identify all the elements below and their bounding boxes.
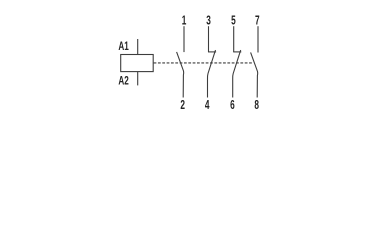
contact pole 4 (terminals 7-8)	[251, 26, 258, 97]
wire A2 lead	[137, 72, 139, 86]
svg-text:7: 7	[255, 12, 260, 27]
wire mechanical link (dashed)	[154, 62, 253, 64]
svg-text:4: 4	[205, 97, 210, 112]
wire A1 lead	[137, 39, 139, 55]
svg-text:6: 6	[230, 97, 235, 112]
contact pole 2 (terminals 3-4)	[207, 26, 216, 97]
svg-text:8: 8	[254, 97, 259, 112]
svg-text:5: 5	[231, 12, 236, 27]
svg-text:A2: A2	[118, 73, 128, 87]
contact pole 3 (terminals 5-6)	[233, 26, 242, 97]
svg-text:1: 1	[182, 12, 187, 27]
contact pole 1 (terminals 1-2)	[177, 26, 184, 97]
svg-text:2: 2	[180, 97, 185, 112]
svg-text:3: 3	[206, 12, 211, 27]
coil K1	[121, 55, 154, 72]
svg-text:A1: A1	[118, 39, 128, 53]
